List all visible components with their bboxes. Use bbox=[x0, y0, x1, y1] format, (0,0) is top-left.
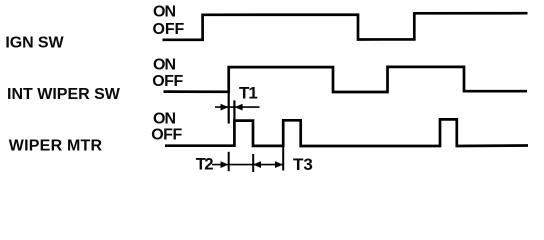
T3 right tick at second pulse leading edge bbox=[282, 147, 284, 171]
IGN SW waveform trace bbox=[163, 13, 528, 40]
T1 right arrowhead pointing left bbox=[235, 104, 243, 111]
T1 left arrowhead pointing right bbox=[221, 104, 229, 111]
svg-text:OFF: OFF bbox=[152, 73, 183, 90]
T2 left tick below baseline bbox=[228, 152, 230, 171]
T2 arrowhead pointing right at first tick bbox=[221, 161, 229, 168]
T1 dimension arrow line bbox=[215, 106, 260, 108]
svg-text:IGN SW: IGN SW bbox=[5, 35, 64, 52]
T2/T3 middle tick at pulse trailing edge bbox=[252, 154, 254, 172]
svg-text:WIPER MTR: WIPER MTR bbox=[9, 137, 103, 154]
svg-text:ON: ON bbox=[153, 57, 175, 74]
svg-text:T1: T1 bbox=[239, 84, 257, 103]
T1 left extension tick from INT WIPER SW rising edge bbox=[228, 92, 230, 124]
svg-text:T2: T2 bbox=[196, 155, 214, 173]
svg-text:OFF: OFF bbox=[153, 21, 185, 38]
svg-text:ON: ON bbox=[153, 4, 175, 21]
T2 T3 dimension arrow line bbox=[212, 164, 283, 166]
WIPER MTR waveform trace with three pulses bbox=[165, 119, 528, 146]
svg-text:OFF: OFF bbox=[151, 127, 182, 144]
svg-text:INT WIPER SW: INT WIPER SW bbox=[7, 86, 121, 103]
T3 arrowhead pointing right at second pulse tick bbox=[275, 161, 283, 168]
T3 arrowhead pointing left at middle tick bbox=[253, 161, 261, 168]
svg-text:T3: T3 bbox=[293, 155, 313, 174]
INT WIPER SW waveform trace bbox=[164, 67, 528, 92]
svg-text:ON: ON bbox=[153, 110, 175, 127]
T1 right extension tick from WIPER MTR pulse rising edge bbox=[233, 100, 235, 121]
